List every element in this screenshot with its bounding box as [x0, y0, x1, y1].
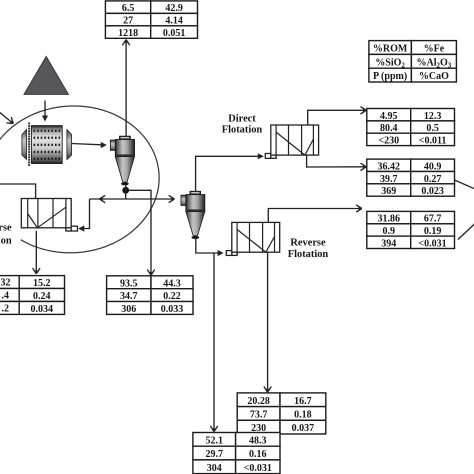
wire: cyclone 2 underflow to reverse flotation feed: [196, 239, 221, 254]
svg-text:306: 306: [121, 304, 136, 315]
svg-text:0.22: 0.22: [163, 291, 181, 302]
wire: junction to circulating load table: [129, 190, 151, 275]
svg-text:0.19: 0.19: [424, 226, 442, 237]
wire: mill discharge to hydrocyclone 1: [72, 144, 102, 145]
wire: diagonal connector (cut at right edge, lower): [458, 224, 474, 240]
svg-text:0.034: 0.034: [31, 304, 54, 315]
wire: cyclone 2 overflow to direct flotation feed: [196, 156, 261, 191]
table L cut column values: [1, 278, 11, 315]
svg-text:67.7: 67.7: [424, 214, 442, 225]
svg-text:P (ppm): P (ppm): [373, 71, 407, 82]
svg-text:34.7: 34.7: [120, 291, 138, 302]
wire: recirculating load to reverse flotation (left cell): [82, 199, 90, 229]
svg-text:0.5: 0.5: [426, 123, 439, 134]
svg-text:<230: <230: [378, 136, 399, 147]
wire: left cell concentrate down to table L: [35, 231, 37, 274]
wire: left cell froth up and off-image left: [0, 184, 36, 199]
svg-text:6.5: 6.5: [122, 3, 135, 14]
wire: reverse flotation froth to table R3: [268, 209, 362, 223]
svg-text:4.14: 4.14: [165, 16, 183, 27]
svg-text:39.7: 39.7: [380, 174, 398, 185]
table R3: reverse flotation froth: [367, 211, 455, 249]
svg-text:<0.031: <0.031: [418, 238, 446, 249]
table B2: reverse flotation feed: [193, 433, 280, 474]
svg-text:Reverse: Reverse: [290, 238, 326, 249]
table B1: reverse flotation tailings: [237, 393, 326, 434]
table L: left cell product (cut at left edge): [0, 276, 65, 315]
ROM stockpile triangle: [24, 57, 68, 95]
svg-text:80.4: 80.4: [380, 123, 398, 134]
reverse flotation cell U-RF2: [226, 222, 279, 255]
svg-text:32: 32: [1, 278, 11, 289]
svg-text:0.16: 0.16: [249, 449, 267, 460]
svg-text:<0.031: <0.031: [244, 463, 272, 474]
table T: cyclone overflow product (top): [105, 1, 197, 39]
wire: cyclone 1 overflow up to product table: [125, 40, 127, 137]
svg-text:42.9: 42.9: [165, 3, 183, 14]
svg-text:12.3: 12.3: [424, 111, 442, 122]
svg-text:.2: .2: [2, 303, 10, 314]
svg-text:0.023: 0.023: [421, 186, 444, 197]
svg-text:4.95: 4.95: [380, 111, 398, 122]
svg-text:1218: 1218: [118, 28, 138, 39]
svg-text:0.27: 0.27: [424, 174, 442, 185]
hydrocyclone 1: [110, 136, 134, 185]
svg-text:%Al2O3: %Al2O3: [417, 57, 452, 69]
svg-text:Flotation: Flotation: [222, 125, 263, 136]
table R1: direct flotation concentrate: [367, 109, 455, 147]
ball mill: [22, 122, 72, 166]
wire: direct flotation tailings to table R2: [307, 155, 367, 167]
svg-text:20.28: 20.28: [247, 396, 270, 407]
svg-text:Direct: Direct: [228, 113, 256, 124]
svg-text:27: 27: [123, 16, 133, 27]
svg-text:40.9: 40.9: [424, 161, 442, 172]
direct flotation cell U-DF: [265, 125, 318, 158]
svg-text:93.5: 93.5: [120, 278, 138, 289]
hydrocyclone 2: [181, 191, 205, 239]
svg-text:0.037: 0.037: [292, 423, 315, 434]
grinding circuit boundary arc: [0, 106, 159, 253]
svg-text:15.2: 15.2: [33, 278, 51, 289]
svg-text:394: 394: [381, 238, 396, 249]
wire: direct flotation concentrate to table R1: [308, 110, 367, 125]
svg-text:%SiO2: %SiO2: [375, 57, 405, 69]
node: cyclone 1 underflow junction: [122, 187, 129, 194]
reverse flotation cell U-RF1 (in grinding circuit): [21, 199, 77, 232]
svg-text:304: 304: [207, 463, 222, 474]
svg-text:Reverse: Reverse: [0, 222, 12, 233]
svg-text:0.9: 0.9: [383, 226, 396, 237]
wire: stockpile feed to ball mill: [44, 101, 46, 116]
svg-text:369: 369: [381, 186, 396, 197]
svg-text:Flotation: Flotation: [0, 235, 12, 246]
wire: underflow split line: [90, 198, 175, 200]
wire: reverse flotation tailings down to table B1: [267, 252, 269, 392]
svg-text:31.86: 31.86: [378, 214, 401, 225]
svg-text:16.7: 16.7: [294, 396, 312, 407]
svg-text:36.42: 36.42: [378, 161, 401, 172]
svg-text:29.7: 29.7: [205, 449, 223, 460]
svg-text:52.1: 52.1: [205, 435, 223, 446]
svg-text:73.7: 73.7: [250, 410, 268, 421]
table M: circulating load: [107, 276, 193, 315]
wire: reverse flotation feed sample down to table: [213, 253, 215, 432]
svg-text:<0.011: <0.011: [419, 136, 447, 147]
svg-text:0.033: 0.033: [161, 304, 184, 315]
wire: external feed arrow (cut at left edge): [0, 112, 12, 123]
table legend: assay key: [369, 41, 457, 83]
svg-text:%ROM: %ROM: [373, 44, 408, 55]
svg-text:%Fe: %Fe: [424, 44, 445, 55]
wire: diagonal connector (cut at right edge, upper): [455, 180, 474, 189]
svg-text:Flotation: Flotation: [288, 249, 329, 260]
svg-text:0.051: 0.051: [163, 28, 186, 39]
table R2: direct flotation tailings: [367, 159, 455, 197]
svg-text:48.3: 48.3: [249, 435, 267, 446]
svg-text:.4: .4: [2, 290, 10, 301]
svg-text:0.24: 0.24: [33, 291, 51, 302]
svg-text:%CaO: %CaO: [419, 71, 449, 82]
svg-text:0.18: 0.18: [294, 410, 312, 421]
svg-text:44.3: 44.3: [163, 278, 181, 289]
